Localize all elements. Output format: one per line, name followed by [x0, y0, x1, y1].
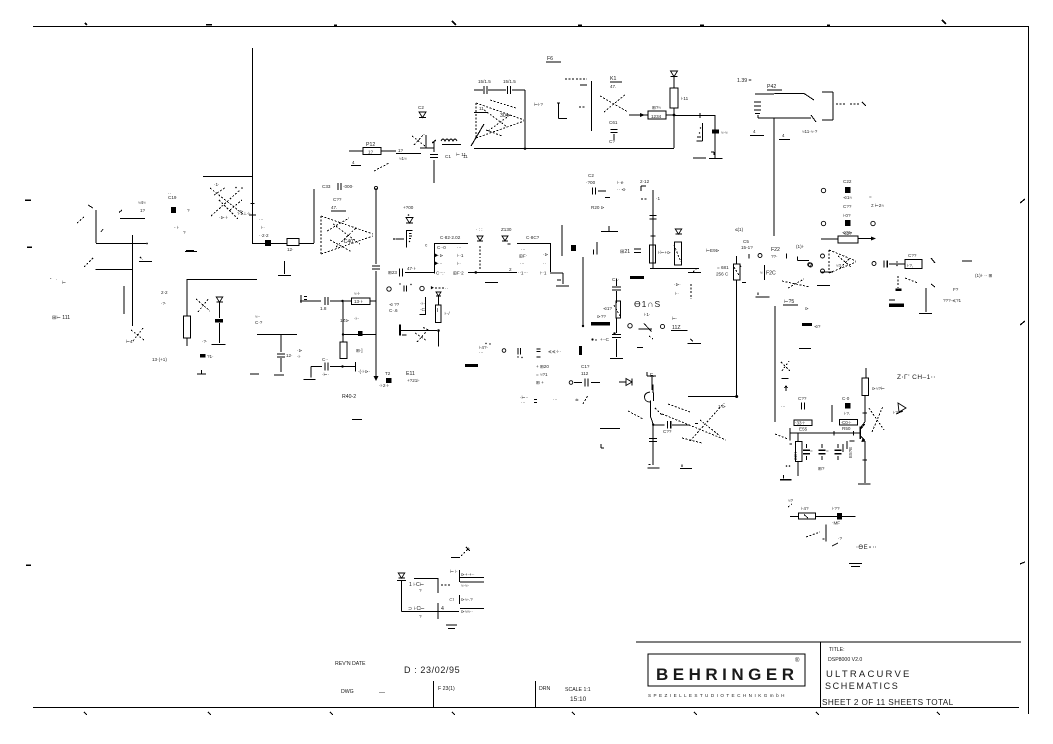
- svg-text:⊞F⋅: ⊞F⋅: [519, 254, 528, 259]
- svg-text:C33: C33: [322, 184, 331, 189]
- svg-text:C⋅82⋅2.02: C⋅82⋅2.02: [440, 235, 461, 240]
- floating vertical net: [582, 257, 584, 327]
- cap dash C?: [802, 323, 812, 326]
- svg-text:⋅?00: ⋅?00: [586, 180, 596, 185]
- svg-text:⊳: ⊳: [805, 306, 809, 311]
- svg-text:T2: T2: [385, 371, 391, 376]
- svg-text:+ ⊞20: + ⊞20: [536, 364, 549, 369]
- resistor R48 vertical: [419, 297, 426, 314]
- dashed sense wire: [690, 284, 692, 299]
- fet right: [674, 242, 682, 265]
- wire node: [420, 135, 434, 148]
- cap n: [781, 403, 805, 410]
- transistor Q-F: [340, 342, 347, 359]
- svg-text:SCALE 1:1: SCALE 1:1: [565, 687, 591, 693]
- svg-text:(1)⊦: (1)⊦: [796, 244, 805, 249]
- pin stub 1: [460, 570, 485, 582]
- diode P: [397, 573, 406, 581]
- capacitor C23: [388, 268, 434, 276]
- svg-text:⊂!: ⊂!: [449, 597, 454, 602]
- resistor R? vertical: [670, 88, 678, 148]
- svg-text:2⋅2: 2⋅2: [262, 233, 269, 238]
- transformer scribble: [210, 187, 243, 219]
- vertical wire B: [313, 189, 315, 243]
- svg-text:⋅000⋅: ⋅000⋅: [343, 184, 354, 189]
- ground ref: [849, 564, 862, 567]
- svg-text:F?: F?: [953, 287, 959, 292]
- svg-text:BEHRINGER: BEHRINGER: [656, 665, 799, 684]
- op-amp U? big: [321, 216, 373, 254]
- svg-text:⊦⋅/: ⊦⋅/: [445, 311, 451, 316]
- titleblock cell separator 2: [535, 681, 537, 707]
- long vertical net wire upper: [773, 118, 775, 236]
- titleblock cell separator 1: [433, 681, 435, 707]
- ground stub small: [809, 263, 834, 272]
- capacitor C61: [609, 120, 618, 144]
- zener Z9: [502, 236, 511, 244]
- svg-text:⋅C⋅: ⋅C⋅: [420, 307, 427, 312]
- svg-text:≐: ≐: [575, 397, 579, 402]
- pin stub 3: [459, 595, 461, 604]
- svg-text:4: 4: [782, 133, 785, 138]
- border tick marks top: [85, 20, 946, 25]
- pad dot q: [591, 338, 596, 340]
- svg-text:1?: 1?: [398, 148, 404, 153]
- svg-text:K1: K1: [610, 76, 616, 82]
- ground k: [755, 293, 769, 298]
- svg-text:≈⋅⊦: ≈⋅⊦: [354, 291, 361, 296]
- svg-text:1-⊳: 1-⊳: [718, 404, 726, 409]
- svg-text:≈⋅≈: ≈⋅≈: [721, 130, 728, 135]
- svg-text:1Z⊳: 1Z⊳: [340, 318, 349, 323]
- vertical stub bottom: [651, 376, 653, 390]
- pad circle 1: [821, 188, 825, 192]
- svg-text:⊦??: ⊦??: [832, 506, 840, 511]
- net stub 4b: [779, 139, 790, 141]
- cap underline: [331, 210, 346, 212]
- wire between ICs dashed: [479, 246, 481, 269]
- marks n2: [843, 441, 847, 452]
- long vertical wire mid: [737, 280, 746, 396]
- dash net: [962, 260, 972, 262]
- svg-text:⋅⊳⋅⊦: ⋅⊳⋅⊦: [219, 215, 229, 220]
- big transistor scribble: [662, 403, 726, 443]
- svg-text:⋅⋅⋅: ⋅⋅⋅: [479, 350, 484, 355]
- svg-text:⊦⋅: ⊦⋅: [457, 261, 461, 266]
- op-amp IC304: [476, 100, 524, 138]
- conn vertical: [401, 580, 403, 612]
- svg-text:TITLE:: TITLE:: [829, 647, 845, 653]
- svg-text:C1?: C1?: [581, 364, 590, 369]
- polarized cap C? blob: [265, 240, 271, 246]
- svg-text:=: =: [869, 194, 872, 199]
- svg-text:R50: R50: [842, 426, 851, 431]
- svg-text:1?: 1?: [368, 150, 374, 155]
- trimmer component: [435, 305, 450, 322]
- svg-text:ULTRACURVE: ULTRACURVE: [826, 669, 912, 680]
- svg-text:2⋅2: 2⋅2: [161, 290, 168, 295]
- svg-text:C2: C2: [588, 173, 594, 178]
- svg-text:⋅?: ⋅?: [838, 536, 842, 541]
- bracket k: [764, 265, 766, 280]
- arrow mark: [931, 258, 935, 263]
- resistor R13b: [343, 298, 376, 305]
- gnd stub up: [278, 261, 291, 276]
- svg-text:22K: 22K: [793, 451, 798, 460]
- svg-text:(1)⊦ ⋅⋅ ⊞: (1)⊦ ⋅⋅ ⊞: [975, 273, 992, 278]
- wire to R: [330, 300, 344, 342]
- diode D? inline: [619, 379, 632, 386]
- svg-text:⋅?⋅: ⋅?⋅: [161, 301, 167, 306]
- wire vertical to bus: [524, 90, 526, 147]
- inductor L1: [441, 139, 461, 145]
- svg-text:⋅⊳: ⋅⊳: [543, 252, 548, 257]
- svg-text:⊞ +: ⊞ +: [536, 380, 544, 385]
- electrolytic blob: [200, 354, 206, 358]
- svg-text:REV’N DATE: REV’N DATE: [335, 661, 366, 667]
- svg-text:2: 2: [509, 267, 512, 272]
- vertical f: [561, 225, 563, 256]
- cap C17: [569, 379, 600, 387]
- svg-text:⊦⋅: ⊦⋅: [675, 291, 679, 296]
- bar q: [579, 346, 582, 355]
- svg-text:15-1?: 15-1?: [741, 245, 753, 250]
- input connector J1: [77, 205, 103, 243]
- svg-text:R40-2: R40-2: [342, 394, 356, 400]
- op-amp U? dotted: [829, 250, 856, 273]
- cap q3: [534, 400, 537, 403]
- thick gnd bar: [889, 300, 904, 307]
- caps row n: [803, 444, 842, 460]
- svg-text:⊦?: ⊦?: [893, 410, 898, 415]
- zener and cap branch: [212, 297, 226, 345]
- bracket k2: [798, 257, 809, 261]
- svg-text:®: ®: [795, 657, 800, 664]
- svg-text:F 23(1): F 23(1): [438, 686, 455, 692]
- pin stub 4: [460, 607, 484, 609]
- resistor R13: [396, 153, 421, 155]
- wire to node: [96, 243, 148, 245]
- svg-text:⋅ : :: ⋅ : :: [476, 227, 483, 232]
- svg-text:?: ?: [419, 588, 422, 593]
- conn wire to pins: [438, 611, 459, 613]
- svg-text:C??: C??: [798, 396, 807, 401]
- svg-text:⋅⊦⋅: ⋅⊦⋅: [354, 316, 360, 321]
- ground G-in: [185, 251, 197, 253]
- svg-text:⋅⊳⋅: ⋅⊳⋅: [674, 282, 681, 287]
- svg-text:4: 4: [753, 129, 756, 134]
- svg-text:⋅⊳: ⋅⊳: [297, 348, 302, 353]
- resistor R? with arrows: [821, 236, 876, 243]
- net bar r40: [352, 419, 362, 421]
- net stub 4: [351, 165, 361, 167]
- emitter wire m: [648, 424, 660, 468]
- svg-text:C??: C??: [663, 429, 672, 434]
- svg-text:⊦11: ⊦11: [681, 96, 689, 101]
- svg-text:⋅⋅⋅: ⋅⋅⋅: [521, 400, 526, 405]
- dash c2: [605, 197, 610, 199]
- svg-text:≈11⋅≈⋅?: ≈11⋅≈⋅?: [802, 129, 818, 134]
- ground G4: [274, 374, 284, 376]
- junction node: [673, 114, 676, 117]
- svg-text:304: 304: [500, 113, 509, 119]
- svg-text:≈1≈: ≈1≈: [399, 156, 407, 161]
- capacitor C14 vertical: [430, 140, 438, 183]
- zener D12: [419, 112, 426, 118]
- gnd under DF1: [485, 282, 498, 284]
- svg-text:⋅⋅⋅: ⋅⋅⋅: [553, 397, 558, 402]
- net F6: [546, 61, 561, 63]
- transistor Q? scribble: [412, 134, 425, 146]
- zener top n: [781, 361, 790, 391]
- svg-text:⋅1⋅: ⋅1⋅: [214, 182, 220, 187]
- pin stub 2: [460, 581, 484, 583]
- svg-text:⋅⋅⋅: ⋅⋅⋅: [438, 261, 443, 266]
- zener Z7: [406, 214, 413, 223]
- ferrite box U?: [889, 260, 922, 292]
- vert ref: [823, 525, 827, 542]
- thick dash: [630, 276, 644, 279]
- svg-text:⊢⋅: ⊢⋅: [672, 315, 678, 321]
- svg-text:D : 23/02/95: D : 23/02/95: [404, 665, 460, 675]
- svg-text:⊦1⊥⋅⊦: ⊦1⊥⋅⊦: [238, 211, 251, 216]
- blob T2: [386, 378, 392, 383]
- ground disp: [610, 355, 623, 359]
- title block separator: [820, 642, 822, 707]
- svg-text:11: 11: [479, 106, 484, 111]
- wire T junction: [187, 279, 257, 316]
- resistor R44 bar: [119, 210, 145, 219]
- svg-text:⊢?5: ⊢?5: [784, 298, 794, 305]
- cap plates 2: [612, 335, 621, 356]
- resistor R? vertical squiggle: [754, 102, 774, 118]
- svg-text:=: =: [810, 448, 813, 453]
- border bottom line: [33, 707, 1019, 709]
- pad k: [758, 254, 762, 258]
- svg-text:DSP8000 V2.0: DSP8000 V2.0: [828, 657, 862, 663]
- svg-text:+?00: +?00: [403, 205, 414, 210]
- scrib ref: [806, 532, 820, 537]
- svg-text:⋅⋅⋅: ⋅⋅⋅: [521, 247, 526, 252]
- conn wire bottom: [402, 603, 439, 619]
- long vertical wire A: [252, 48, 254, 244]
- optocoupler U-DF2: [517, 243, 551, 272]
- border right line: [1028, 27, 1030, 715]
- ground n1: [780, 475, 792, 480]
- ground GC: [374, 376, 379, 381]
- svg-text:⊳≈?⊢: ⊳≈?⊢: [872, 385, 885, 391]
- ground G1: [693, 152, 723, 159]
- svg-text:P42: P42: [767, 84, 776, 90]
- branch wire: [203, 176, 253, 178]
- pin bracket: [393, 230, 428, 248]
- scribbles n: [869, 406, 884, 432]
- svg-text:C1: C1: [445, 154, 451, 159]
- bracket mid: [647, 372, 656, 376]
- svg-text:⊲?⊳: ⊲?⊳: [842, 230, 852, 235]
- resistor R? ref: [790, 513, 856, 519]
- net stub 4a: [750, 135, 764, 137]
- svg-text:DWG: DWG: [341, 689, 354, 695]
- svg-text:⊞?≈: ⊞?≈: [652, 105, 661, 110]
- svg-text:C?: C?: [609, 139, 615, 144]
- capacitor C19: [171, 207, 176, 213]
- svg-text:⊢4⋅: ⊢4⋅: [126, 338, 135, 344]
- svg-text:SHEET 2 OF 11 SHEETS TOTAL: SHEET 2 OF 11 SHEETS TOTAL: [822, 698, 954, 707]
- dash p: [441, 584, 450, 586]
- svg-text:⋅C40: ⋅C40: [342, 239, 353, 245]
- svg-text:⋅⊦2⋅⊦: ⋅⊦2⋅⊦: [379, 383, 390, 388]
- svg-text:1234: 1234: [651, 114, 662, 119]
- tick n3: [788, 504, 792, 507]
- svg-text:⊦⋅e: ⊦⋅e: [617, 180, 624, 185]
- bracket and scribble: [399, 325, 440, 347]
- tick k0: [748, 254, 750, 259]
- svg-text:⋅⋅⋅: ⋅⋅⋅: [781, 404, 786, 409]
- svg-text:+⋅-C: +⋅-C: [600, 337, 610, 342]
- left stub m: [600, 428, 620, 430]
- svg-text:ϴ1∩S: ϴ1∩S: [634, 299, 661, 309]
- svg-text:⋅⊳: ⋅⊳: [438, 253, 443, 258]
- tri small: [649, 336, 653, 339]
- transistor T? scribbles: [131, 328, 144, 341]
- transistor 2N12: [641, 186, 660, 268]
- svg-text:C??: C??: [843, 204, 852, 209]
- svg-text:1?: 1?: [140, 208, 146, 213]
- dash small: [637, 347, 643, 349]
- svg-text:⋅(⋅⊦⊳⋅: ⋅(⋅⊦⊳⋅: [358, 369, 371, 374]
- cap blob ref: [837, 513, 842, 519]
- cap on vertical: [249, 204, 256, 216]
- zener Z4: [671, 71, 678, 88]
- svg-text:⊲ ??: ⊲ ??: [389, 302, 400, 307]
- conn wire top: [414, 578, 438, 593]
- border row labels left: [25, 200, 32, 565]
- dashed net: [836, 102, 866, 106]
- svg-text:⊦0?: ⊦0?: [843, 213, 851, 218]
- capacitor C33 sym: [338, 183, 341, 190]
- resistor 22K vertical: [795, 434, 802, 477]
- svg-text:15/1.5: 15/1.5: [503, 79, 516, 84]
- svg-text:256 C: 256 C: [716, 272, 729, 277]
- wire branch right: [257, 334, 297, 352]
- svg-text:≼≼⋅⊦⋅: ≼≼⋅⊦⋅: [548, 349, 562, 354]
- output pad and cap: [872, 261, 898, 268]
- ground G3: [250, 373, 259, 375]
- svg-text:F22: F22: [771, 247, 780, 253]
- ground J2: [688, 339, 702, 344]
- svg-text:4: 4: [352, 160, 355, 165]
- svg-text:⊦⋅1: ⊦⋅1: [540, 271, 547, 276]
- svg-text:≠ ⊢2≈: ≠ ⊢2≈: [871, 202, 884, 208]
- tick k: [786, 254, 788, 259]
- svg-text:⊦?.: ⊦?.: [844, 411, 850, 416]
- wire input caps row: [474, 86, 525, 94]
- svg-text:⊦1⋅: ⊦1⋅: [644, 312, 651, 317]
- svg-text:C??: C??: [333, 197, 342, 202]
- svg-text:12⋅: 12⋅: [287, 247, 294, 252]
- svg-text:⊳??: ⊳??: [597, 314, 606, 319]
- wire scribble to pot: [374, 163, 389, 171]
- svg-text:C??: C??: [908, 253, 917, 258]
- ic row wire: [468, 271, 517, 274]
- emitter branch: [858, 441, 871, 484]
- svg-text:2⋅12: 2⋅12: [640, 179, 650, 184]
- svg-text:F6: F6: [547, 56, 553, 62]
- ground P: [446, 625, 457, 629]
- ground bar F: [186, 250, 194, 252]
- cap blob sq: [358, 331, 363, 336]
- svg-text:S P E Z I E L L E S T U D I O: S P E Z I E L L E S T U D I O T E C H N …: [648, 693, 785, 698]
- svg-text:???⋅≼?1: ???⋅≼?1: [943, 298, 962, 303]
- svg-text:1.8: 1.8: [320, 306, 327, 311]
- svg-text:⋅?⋅: ⋅?⋅: [202, 339, 208, 344]
- ground G? with stem: [919, 284, 935, 314]
- thick dash 2: [591, 322, 610, 326]
- svg-text:15:10: 15:10: [570, 696, 587, 703]
- dashed box K1 contact: [565, 79, 592, 131]
- svg-text:⊞23: ⊞23: [388, 270, 397, 275]
- cap q: [485, 343, 522, 358]
- svg-text:⋅⋅⋅: ⋅⋅⋅: [259, 217, 264, 222]
- svg-text:⋅⊢⋅: ⋅⊢⋅: [322, 371, 329, 377]
- svg-text:⋅⊦⋅: ⋅⊦⋅: [420, 301, 426, 306]
- svg-text:C⋅.6: C⋅.6: [389, 308, 398, 313]
- svg-text:13⋅⊦: 13⋅⊦: [354, 299, 364, 304]
- pad circle 3: [871, 221, 875, 225]
- svg-text:C1⋅: C1⋅: [612, 277, 620, 282]
- svg-text:⋅⊦: ⋅⊦: [297, 354, 301, 359]
- svg-text:F2C: F2C: [766, 271, 776, 277]
- svg-text:⊳≈≈⋅⋅: ⊳≈≈⋅⋅: [461, 609, 473, 614]
- ground C2: [601, 226, 618, 232]
- svg-text:—: —: [379, 690, 385, 696]
- pad q: [502, 349, 506, 353]
- svg-text:DRN: DRN: [539, 686, 550, 692]
- svg-text:⊲1?: ⊲1?: [603, 306, 612, 311]
- cap m: [653, 421, 698, 429]
- svg-text:⊢ 11: ⊢ 11: [456, 151, 466, 157]
- svg-text:C2: C2: [418, 105, 424, 110]
- vertical wire C: [372, 186, 380, 380]
- svg-text:P12: P12: [366, 142, 375, 148]
- diode n2: [896, 403, 906, 414]
- net X mark: [451, 547, 470, 558]
- svg-text:⊦⋅1: ⊦⋅1: [457, 253, 464, 258]
- svg-text:47.: 47.: [331, 205, 337, 210]
- bracket gnd m: [680, 465, 692, 469]
- wire y268: [650, 267, 701, 273]
- svg-text:C5: C5: [743, 239, 749, 244]
- Behringer logo box: [648, 654, 805, 686]
- svg-text:≈⋅≈⋅: ≈⋅≈⋅: [461, 583, 470, 588]
- net label R75: [783, 304, 798, 306]
- wire y396: [688, 395, 738, 398]
- svg-text:+?21⊦: +?21⊦: [407, 378, 420, 383]
- capacitor C? plates: [277, 354, 285, 372]
- svg-text:≤(1): ≤(1): [735, 227, 744, 232]
- svg-text:⋅C0⋅⊦: ⋅C0⋅⊦: [841, 420, 853, 425]
- resistor R? 1234: [648, 111, 674, 119]
- connector bracket: [697, 123, 703, 141]
- svg-text:1.39 =: 1.39 =: [737, 78, 752, 84]
- resistor P42: [755, 90, 814, 100]
- svg-text:E11: E11: [406, 371, 415, 377]
- svg-text:⊢E9⊳: ⊢E9⊳: [706, 247, 720, 253]
- svg-text:⊢ ⊦: ⊢ ⊦: [450, 568, 458, 574]
- resistor R124 box: [287, 239, 299, 246]
- svg-text:⊳+⋅+⋅⋅: ⊳+⋅+⋅⋅: [461, 572, 475, 577]
